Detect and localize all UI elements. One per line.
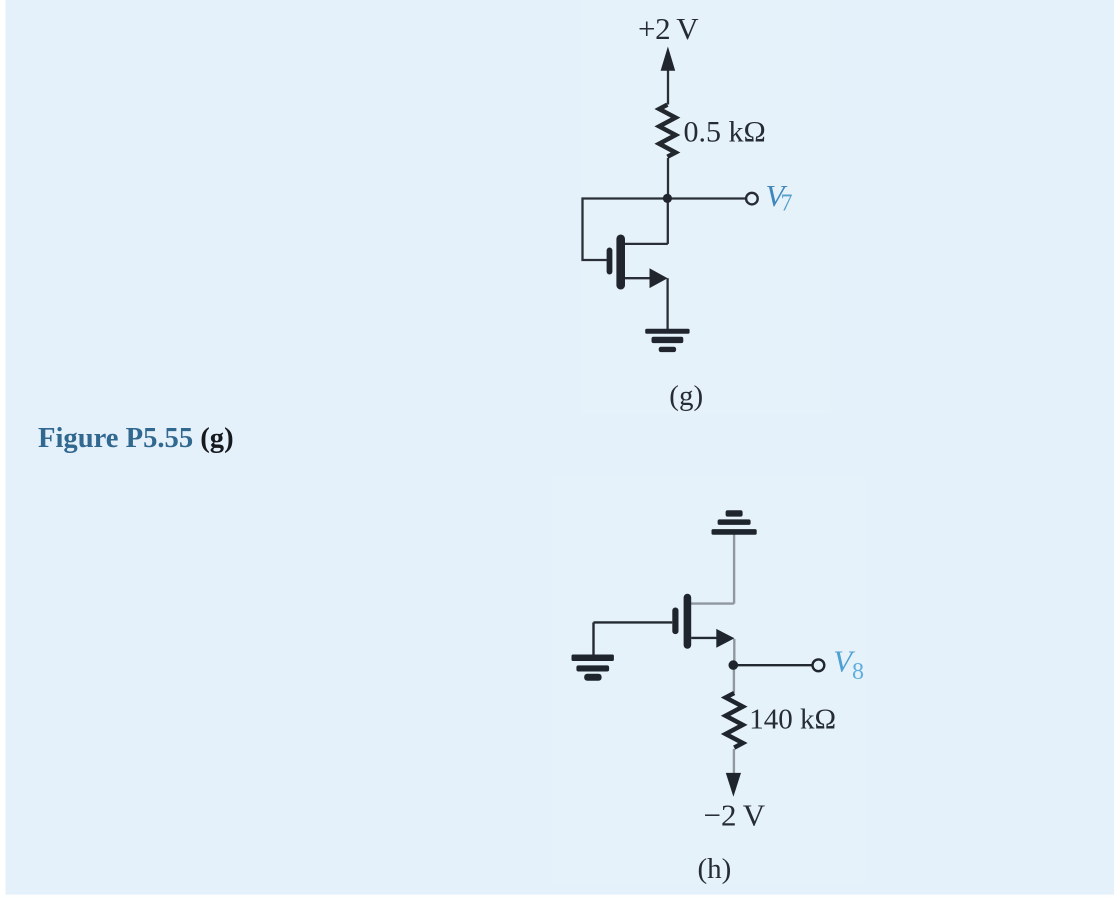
svg-text:(g): (g) — [669, 380, 703, 412]
svg-text:7: 7 — [781, 190, 793, 216]
svg-text:Figure P5.55 (g): Figure P5.55 (g) — [38, 423, 234, 454]
svg-text:+2 V: +2 V — [638, 11, 699, 46]
svg-text:140 kΩ: 140 kΩ — [749, 703, 836, 735]
svg-text:8: 8 — [852, 659, 864, 685]
svg-text:0.5 kΩ: 0.5 kΩ — [684, 116, 766, 149]
svg-text:−2 V: −2 V — [704, 797, 766, 832]
svg-text:(h): (h) — [698, 853, 732, 885]
